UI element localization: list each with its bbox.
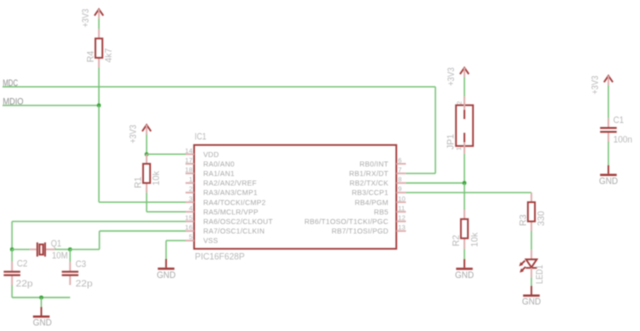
svg-text:PIC16F628P: PIC16F628P xyxy=(195,250,245,261)
svg-text:4: 4 xyxy=(189,205,193,212)
wire R2 to GND xyxy=(463,249,465,259)
svg-text:Q1: Q1 xyxy=(51,237,61,248)
junction VDD xyxy=(145,152,149,156)
wire VDD junction to pin 14 xyxy=(147,153,186,155)
svg-text:RA2/AN2/VREF: RA2/AN2/VREF xyxy=(203,179,257,188)
wire MDIO down to RA4 row xyxy=(98,105,100,202)
junction crystal left xyxy=(10,247,14,251)
wire junction right to elbow xyxy=(70,248,99,250)
svg-text:JP1: JP1 xyxy=(445,134,456,150)
svg-text:10k: 10k xyxy=(469,232,480,247)
wire MDC vertical down to RB1 xyxy=(434,87,436,174)
svg-text:GND: GND xyxy=(157,269,176,280)
wire +3V3 to VDD junction xyxy=(146,135,148,155)
pin 12 RB6/T1OSO/T1CKI/PGC xyxy=(304,215,405,226)
wire +3V3 to JP1 xyxy=(463,77,465,96)
power +3V3 (above R4) xyxy=(80,9,104,28)
wire junction to Q1 left xyxy=(12,248,30,250)
ground (LED1) xyxy=(522,286,541,307)
junction bottom rail xyxy=(39,296,43,300)
pin 16 RA7/OSC1/CLKIN xyxy=(185,225,265,236)
ground (crystal) xyxy=(33,307,52,328)
wire LED1 to GND xyxy=(530,277,532,286)
power +3V3 (above JP1) xyxy=(445,67,469,86)
svg-text:16: 16 xyxy=(185,225,193,232)
svg-text:+3V3: +3V3 xyxy=(589,76,600,95)
wire R3 to LED1 xyxy=(530,231,532,250)
resistor R3 xyxy=(517,193,546,231)
svg-text:10: 10 xyxy=(398,196,406,203)
junction RB2/JP1/R2 xyxy=(462,181,466,185)
svg-text:1: 1 xyxy=(456,147,463,151)
wire junction down to C2 xyxy=(11,249,13,262)
wire bottom rail xyxy=(12,297,70,299)
svg-text:RB7/T1OSI/PGD: RB7/T1OSI/PGD xyxy=(332,227,389,236)
wire Q1 right to junction xyxy=(55,248,70,250)
svg-text:GND: GND xyxy=(599,175,618,186)
LED LED1 xyxy=(519,250,545,284)
pin 15 RA6/OSC2/CLKOUT xyxy=(185,215,273,226)
svg-text:12: 12 xyxy=(398,215,406,222)
resistor R2 xyxy=(450,210,480,249)
power +3V3 (above C1) xyxy=(589,76,613,95)
svg-text:7: 7 xyxy=(398,167,402,174)
wire junction to GND xyxy=(40,298,42,307)
svg-text:22p: 22p xyxy=(16,278,33,289)
ground (C1) xyxy=(599,165,618,186)
capacitor C1 xyxy=(600,114,632,145)
svg-text:RA3/AN3/CMP1: RA3/AN3/CMP1 xyxy=(203,188,257,197)
pin 2 RA3/AN3/CMP1 xyxy=(186,186,258,197)
svg-text:RA7/OSC1/CLKIN: RA7/OSC1/CLKIN xyxy=(203,227,265,236)
wire +3V3 to C1 xyxy=(607,85,609,118)
svg-text:RA6/OSC2/CLKOUT: RA6/OSC2/CLKOUT xyxy=(203,217,273,226)
svg-text:C3: C3 xyxy=(76,258,87,269)
wire MDC horizontal xyxy=(3,86,436,88)
pin 9 RB3/CCP1 xyxy=(352,186,406,197)
pin 6 RB0/INT xyxy=(360,157,406,168)
pin 8 RB2/TX/CK xyxy=(350,177,406,188)
svg-text:10k: 10k xyxy=(150,171,161,186)
svg-text:GND: GND xyxy=(522,296,541,307)
svg-text:+3V3: +3V3 xyxy=(445,67,456,86)
svg-text:+3V3: +3V3 xyxy=(127,125,138,144)
ground (R2) xyxy=(455,259,474,280)
svg-text:+3V3: +3V3 xyxy=(80,9,91,28)
svg-text:100n: 100n xyxy=(613,134,632,145)
wire down to crystal left xyxy=(11,221,13,249)
crystal Q1 xyxy=(30,237,68,260)
pin 14 VDD xyxy=(185,148,219,159)
svg-text:C2: C2 xyxy=(17,257,28,268)
svg-text:GND: GND xyxy=(33,317,52,328)
svg-text:4k7: 4k7 xyxy=(102,48,113,63)
svg-text:RB3/CCP1: RB3/CCP1 xyxy=(352,188,389,197)
pin 4 RA5/MCLR/VPP xyxy=(186,205,259,216)
pin 7 RB1/RX/DT xyxy=(349,167,406,178)
resistor R1 xyxy=(132,154,161,192)
svg-text:GND: GND xyxy=(455,269,474,280)
op-amp IC1 PIC16F628P box xyxy=(194,131,396,262)
svg-text:RB1/RX/DT: RB1/RX/DT xyxy=(349,169,389,178)
svg-text:5: 5 xyxy=(189,234,193,241)
wire to pin 16 xyxy=(99,230,185,232)
wire pin 8 to junction xyxy=(406,182,465,184)
svg-text:RA5/MCLR/VPP: RA5/MCLR/VPP xyxy=(203,207,258,216)
pin 11 RB5 xyxy=(374,205,406,216)
svg-text:R2: R2 xyxy=(450,235,461,247)
wire +3V3 to R4 xyxy=(98,19,100,29)
svg-text:RB4/PGM: RB4/PGM xyxy=(355,198,389,207)
pin 5 VSS xyxy=(186,234,219,245)
wire VSS pin 5 to elbow xyxy=(166,240,185,242)
svg-text:8: 8 xyxy=(398,177,402,184)
pin 13 RB7/T1OSI/PGD xyxy=(332,225,406,236)
svg-text:VDD: VDD xyxy=(203,150,219,159)
wire MDC to pin 7 xyxy=(406,172,436,174)
pin 18 RA1/AN1 xyxy=(185,167,235,178)
svg-text:13: 13 xyxy=(398,225,406,232)
svg-text:14: 14 xyxy=(185,148,193,155)
resistor R4 xyxy=(84,29,113,68)
svg-text:15: 15 xyxy=(185,215,193,222)
svg-text:22p: 22p xyxy=(76,278,93,289)
svg-text:2: 2 xyxy=(189,186,193,193)
svg-text:IC1: IC1 xyxy=(195,131,207,142)
svg-text:RA0/AN0: RA0/AN0 xyxy=(203,159,234,168)
pin 3 RA4/TOCKI/CMP2 xyxy=(186,196,266,207)
wire to pin 4 xyxy=(147,211,186,213)
junction MDIO/R4 xyxy=(97,103,101,107)
svg-text:RB6/T1OSO/T1CKI/PGC: RB6/T1OSO/T1CKI/PGC xyxy=(304,217,388,226)
svg-text:3: 3 xyxy=(189,196,193,203)
wire pin 9 to R3 xyxy=(406,192,532,194)
capacitor C2 xyxy=(4,257,33,288)
wire JP1 to RB2 junction xyxy=(463,154,465,183)
svg-text:6: 6 xyxy=(398,157,402,164)
pin 10 RB4/PGM xyxy=(355,196,406,207)
svg-text:RB0/INT: RB0/INT xyxy=(360,159,389,168)
svg-text:RB2/TX/CK: RB2/TX/CK xyxy=(350,179,389,188)
svg-text:R4: R4 xyxy=(84,51,95,63)
wire elbow down xyxy=(165,241,167,259)
svg-text:330: 330 xyxy=(535,211,546,226)
wire pin 15 to left xyxy=(12,220,186,222)
pin 1 RA2/AN2/VREF xyxy=(186,177,258,188)
capacitor C3 xyxy=(62,258,93,289)
power +3V3 (above R1/VDD) xyxy=(127,125,151,144)
wire elbow up to RA7 row xyxy=(98,231,100,249)
svg-text:RA4/TOCKI/CMP2: RA4/TOCKI/CMP2 xyxy=(203,198,266,207)
wire R1 to RA5 row xyxy=(146,193,148,212)
svg-text:R1: R1 xyxy=(132,177,143,189)
svg-text:R3: R3 xyxy=(517,215,528,227)
svg-text:9: 9 xyxy=(398,186,402,193)
svg-text:18: 18 xyxy=(185,167,193,174)
wire to pin 3 xyxy=(99,201,186,203)
pin 17 RA0/AN0 xyxy=(185,157,235,168)
wire C1 to GND xyxy=(607,142,609,166)
svg-text:VSS: VSS xyxy=(203,236,218,245)
svg-text:11: 11 xyxy=(398,205,405,212)
jumper JP1 xyxy=(445,96,474,153)
wire junction down to C3 xyxy=(69,249,71,262)
junction crystal right xyxy=(68,247,72,251)
svg-text:C1: C1 xyxy=(613,114,624,125)
wire junction down to R2 xyxy=(463,183,465,210)
wire C2 to bottom rail xyxy=(11,285,13,298)
wire MDIO horizontal xyxy=(3,104,99,106)
ground (VSS) xyxy=(157,259,176,280)
svg-text:10M: 10M xyxy=(52,249,68,260)
wire R4 to MDIO junction xyxy=(98,67,100,105)
svg-text:1: 1 xyxy=(189,177,193,184)
svg-text:LED1: LED1 xyxy=(534,265,545,284)
svg-text:RB5: RB5 xyxy=(374,207,389,216)
svg-text:17: 17 xyxy=(185,157,193,164)
svg-text:RA1/AN1: RA1/AN1 xyxy=(203,169,234,178)
svg-text:2: 2 xyxy=(456,101,463,105)
